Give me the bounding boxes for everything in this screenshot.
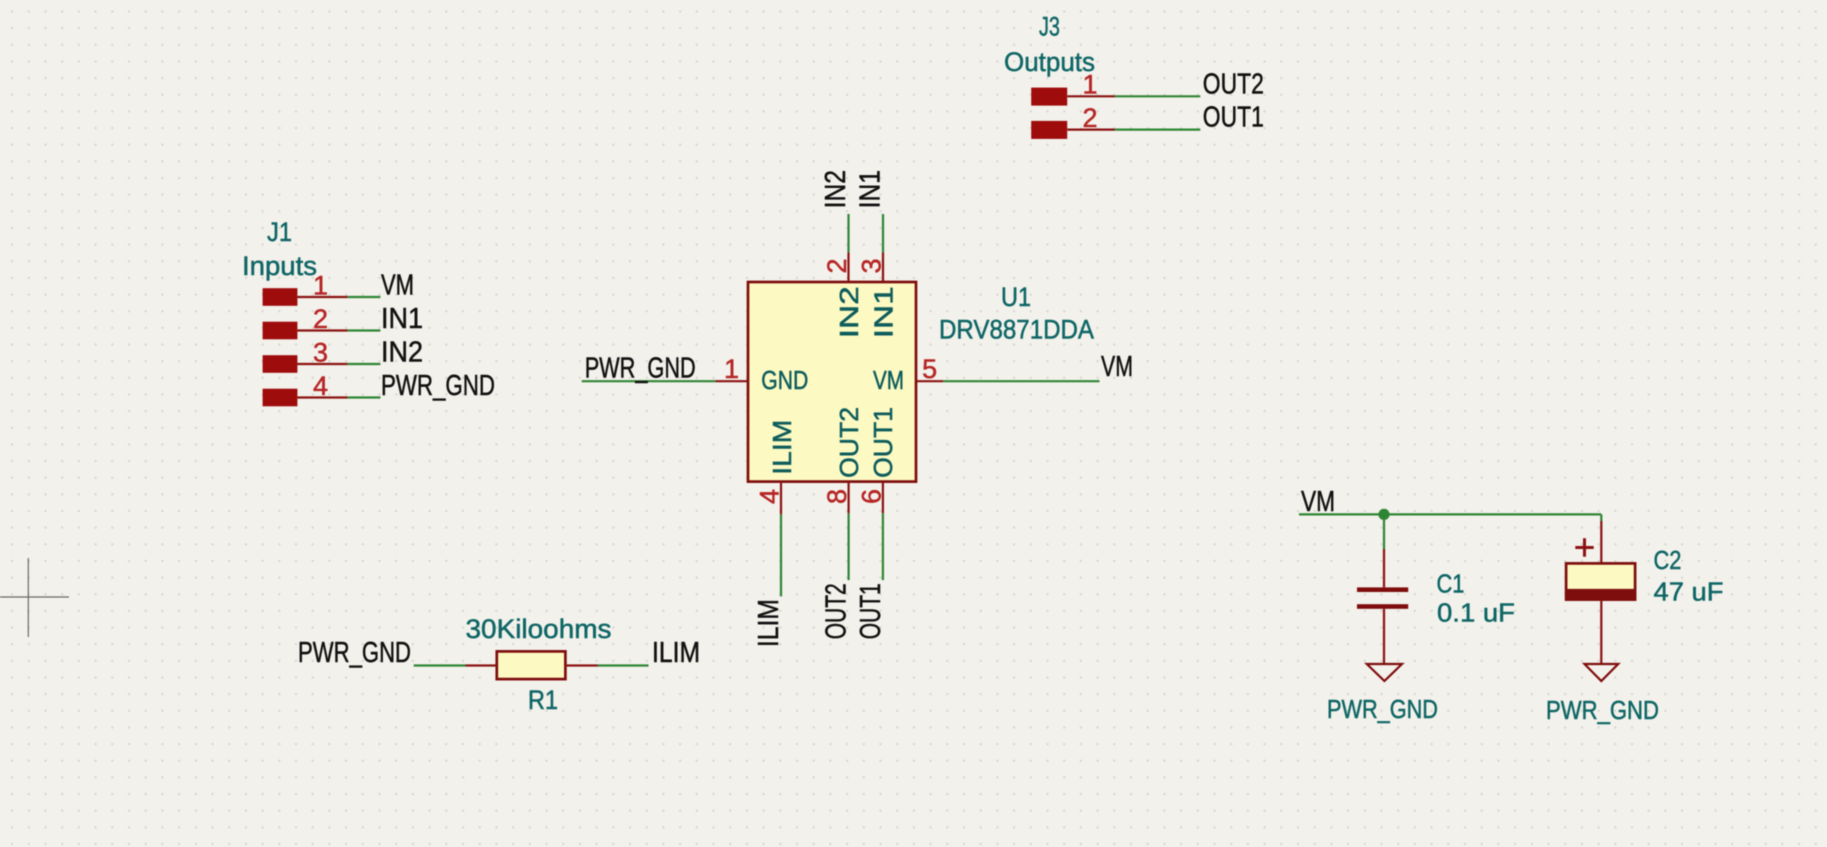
svg-text:PWR_GND: PWR_GND (1546, 695, 1659, 725)
U1 pin 8 OUT2 stub (847, 482, 849, 514)
svg-text:IN2: IN2 (820, 170, 852, 208)
wire VM at J1 pin 1 (348, 296, 381, 298)
capacitor C2 plus sign (1575, 538, 1593, 556)
svg-text:PWR_GND: PWR_GND (585, 353, 696, 385)
ground symbol at C2 (1585, 664, 1619, 681)
svg-text:5: 5 (922, 354, 937, 384)
IC U1 body (748, 282, 916, 482)
R1 left pin stub (466, 664, 497, 666)
connector J1 pin 2 pad (263, 322, 298, 340)
wire IN1 at J1 pin 2 (348, 329, 381, 331)
wire ILIM from U1 pin 4 (780, 514, 782, 596)
svg-text:8: 8 (822, 489, 852, 504)
capacitor C2 bottom electrode (1566, 589, 1635, 600)
svg-text:DRV8871DDA: DRV8871DDA (939, 315, 1094, 345)
svg-text:PWR_GND: PWR_GND (1327, 694, 1438, 724)
svg-text:VM: VM (381, 269, 414, 301)
svg-text:C1: C1 (1437, 569, 1465, 599)
svg-text:6: 6 (856, 489, 886, 504)
J1 pin 3 stub (297, 363, 347, 365)
svg-text:4: 4 (313, 371, 328, 401)
wire VM to C1 (1383, 514, 1385, 549)
svg-text:2: 2 (822, 258, 852, 273)
wire PWR_GND to R1 (414, 664, 466, 666)
wire OUT1 at J3 pin 2 (1115, 129, 1200, 131)
wire VM from U1 pin 5 (943, 380, 1099, 382)
U1 pin 2 IN2 stub (847, 252, 849, 282)
svg-text:ILIM: ILIM (753, 599, 785, 647)
connector J3 pin 1 pad (1031, 88, 1067, 106)
svg-text:2: 2 (1082, 103, 1097, 133)
wire ILIM from R1 (598, 664, 649, 666)
svg-text:ILIM: ILIM (767, 420, 797, 475)
svg-text:1: 1 (1082, 70, 1097, 100)
svg-text:IN2: IN2 (381, 336, 423, 368)
svg-text:PWR_GND: PWR_GND (381, 370, 495, 402)
R1 right pin stub (565, 664, 598, 666)
wire PWR_GND at J1 pin 4 (348, 396, 381, 398)
svg-text:ILIM: ILIM (652, 637, 700, 669)
U1 pin 5 VM stub (916, 380, 943, 382)
svg-text:OUT1: OUT1 (855, 583, 887, 639)
capacitor C1 bottom lead (1383, 609, 1385, 664)
wire OUT1 from U1 pin 6 (882, 513, 884, 580)
U1 pin 6 OUT1 stub (882, 482, 884, 514)
svg-text:IN2: IN2 (834, 286, 864, 338)
capacitor C1 top plate (1357, 587, 1408, 592)
wire VM rail (1299, 513, 1601, 515)
connector J1 pin 1 pad (263, 288, 298, 306)
svg-text:J3: J3 (1039, 12, 1060, 42)
capacitor C2 bottom lead (1600, 600, 1602, 664)
J1 pin 1 stub (297, 296, 347, 298)
ground symbol at C1 (1367, 664, 1402, 681)
resistor R1 body (497, 651, 566, 679)
wire IN2 to U1 pin 2 (847, 214, 849, 252)
svg-text:IN1: IN1 (381, 303, 423, 335)
svg-text:OUT2: OUT2 (1203, 68, 1264, 100)
svg-text:C2: C2 (1654, 545, 1682, 575)
wire IN1 to U1 pin 3 (882, 214, 884, 252)
capacitor C2 body (1566, 563, 1635, 599)
svg-text:Inputs: Inputs (242, 251, 317, 281)
svg-text:3: 3 (857, 258, 887, 273)
svg-text:Outputs: Outputs (1004, 47, 1095, 77)
svg-text:OUT1: OUT1 (868, 407, 898, 478)
J1 pin 4 stub (297, 396, 347, 398)
connector J1 pin 3 pad (263, 355, 298, 373)
svg-text:0.1 uF: 0.1 uF (1437, 598, 1515, 628)
U1 pin 4 ILIM stub (780, 481, 782, 515)
svg-text:R1: R1 (528, 685, 558, 715)
svg-text:1: 1 (313, 270, 328, 300)
wire OUT2 from U1 pin 8 (847, 513, 849, 580)
junction VM node (1378, 509, 1389, 520)
svg-text:PWR_GND: PWR_GND (298, 637, 411, 669)
J3 pin 2 stub (1067, 129, 1115, 131)
wire OUT2 at J3 pin 1 (1115, 95, 1200, 97)
svg-text:VM: VM (1101, 351, 1133, 383)
svg-text:U1: U1 (1001, 282, 1031, 312)
J3 pin 1 stub (1067, 95, 1115, 97)
J1 pin 2 stub (297, 329, 347, 331)
svg-text:GND: GND (761, 365, 808, 395)
svg-text:IN1: IN1 (868, 286, 898, 338)
svg-text:VM: VM (873, 365, 904, 395)
svg-text:3: 3 (313, 337, 328, 367)
U1 pin 1 GND stub (715, 380, 748, 382)
svg-text:J1: J1 (267, 217, 292, 247)
capacitor C2 positive lead (1600, 521, 1602, 563)
wire IN2 at J1 pin 3 (348, 363, 381, 365)
wire PWR_GND to U1 pin 1 (582, 380, 716, 382)
capacitor C1 bottom plate (1357, 604, 1408, 609)
svg-text:IN1: IN1 (855, 170, 887, 208)
svg-text:OUT1: OUT1 (1203, 102, 1264, 134)
U1 pin 3 IN1 stub (882, 252, 884, 282)
connector J3 pin 2 pad (1031, 121, 1067, 139)
wire VM corner to C2 (1600, 514, 1602, 521)
svg-text:47 uF: 47 uF (1654, 577, 1724, 607)
svg-text:30Kiloohms: 30Kiloohms (466, 614, 612, 644)
svg-text:4: 4 (755, 489, 785, 504)
svg-text:2: 2 (313, 304, 328, 334)
connector J1 pin 4 pad (263, 389, 298, 407)
svg-text:1: 1 (724, 354, 739, 384)
svg-text:VM: VM (1301, 486, 1335, 518)
capacitor C1 top lead (1383, 549, 1385, 587)
origin crosshair (0, 558, 69, 637)
svg-text:OUT2: OUT2 (821, 583, 853, 639)
svg-text:OUT2: OUT2 (834, 407, 864, 478)
